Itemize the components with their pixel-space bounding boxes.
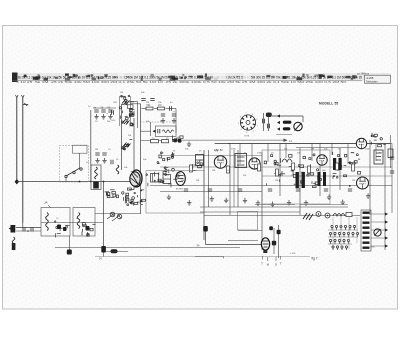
bandfilter 1 coil a	[46, 213, 49, 231]
capacitor row c2	[208, 189, 212, 191]
capacitor C9	[170, 106, 172, 110]
resistor under dial line b	[162, 140, 169, 143]
bandfilter trimmer dark c	[86, 226, 90, 231]
electrolytic C52a	[333, 158, 336, 170]
parts list left dark block	[12, 73, 18, 83]
antenna lead A1	[16, 97, 18, 182]
cluster V2 right	[193, 160, 203, 170]
svg-text:2M: 2M	[196, 180, 199, 182]
svg-text:T: T	[280, 262, 282, 266]
parts list underline	[12, 80, 362, 82]
bottom faint bus	[95, 256, 310, 258]
main row top bus	[228, 143, 390, 145]
wave switch contacts	[66, 168, 80, 176]
vertical 385	[384, 144, 386, 251]
long vertical 208	[208, 150, 210, 207]
pickup coil 1	[283, 121, 292, 124]
bandfilter 1 trimmer	[55, 221, 70, 237]
wire y230	[238, 230, 262, 232]
electrolytic C50b	[302, 172, 305, 188]
svg-text:9: 9	[256, 119, 257, 121]
resistor R4	[158, 107, 165, 110]
main row faint bus a	[160, 155, 262, 157]
capacitor mid tube	[132, 111, 134, 115]
oscillator coil can	[131, 170, 142, 187]
switch diagonal strokes	[107, 213, 120, 221]
ground g12	[366, 193, 370, 198]
switch row C	[329, 239, 331, 244]
antenna lead join	[22, 223, 24, 228]
ground g4	[224, 198, 228, 203]
capacitor grid a	[141, 99, 145, 101]
eye cathode stub	[263, 250, 267, 253]
capacitor C6 group	[108, 110, 112, 112]
ground under dial	[187, 142, 191, 147]
wire V line into box	[150, 122, 152, 136]
AF coupling box	[156, 126, 177, 137]
electrolytic C50a	[296, 172, 299, 188]
node input	[27, 230, 29, 232]
magic eye tube EM	[261, 238, 269, 250]
parts list stamp box	[365, 75, 391, 83]
svg-text:8: 8	[252, 114, 253, 116]
cluster AF stage	[298, 154, 321, 188]
parts list band background	[12, 73, 390, 81]
mixer box parts a	[151, 174, 159, 183]
antenna lead A2	[22, 97, 24, 223]
capacitor C12 group	[172, 114, 176, 116]
motor symbol right	[374, 229, 381, 236]
svg-text:1M: 1M	[352, 180, 355, 182]
tube V1 envelope	[119, 96, 121, 126]
AVC bus wire	[17, 181, 140, 183]
mixer drop blob	[101, 246, 106, 253]
pickup coil 2	[283, 127, 291, 130]
input coil vertical	[12, 237, 15, 250]
ground g6	[256, 200, 260, 205]
input arrow	[9, 227, 12, 230]
bandfilter box 1	[41, 208, 70, 237]
arrow into box	[153, 130, 156, 133]
switch row lines	[328, 229, 358, 231]
switch rotor B	[325, 213, 330, 218]
wire input pair b	[16, 230, 41, 232]
wire switch bus	[95, 213, 140, 215]
switch contact cluster	[105, 190, 119, 198]
node antenna junction	[15, 179, 19, 184]
antenna tip 2	[21, 95, 24, 97]
long vertical 204	[203, 150, 205, 240]
tube V1 mid section	[121, 116, 134, 126]
capacitor C14 group	[95, 153, 99, 155]
ground g3	[210, 196, 214, 201]
vertical 262	[261, 152, 263, 250]
speaker coil humps	[333, 214, 345, 217]
ground g5	[243, 198, 247, 203]
svg-text:1M: 1M	[243, 175, 246, 177]
switch rotor A	[316, 212, 321, 217]
box near eye	[238, 212, 258, 231]
ground g10	[327, 195, 331, 200]
coil L2 winding	[93, 182, 99, 189]
svg-text:6: 6	[240, 117, 241, 119]
dial pointer hatch	[303, 213, 313, 220]
bottom wire blob b	[111, 249, 118, 253]
svg-text:1M: 1M	[128, 135, 131, 137]
bandfilter trimmer dark a	[57, 225, 61, 230]
svg-text:1M: 1M	[379, 153, 382, 155]
wire mid link	[141, 130, 151, 132]
wire tube drop	[137, 102, 139, 129]
wire y240	[228, 240, 258, 242]
ground g2	[187, 200, 191, 205]
vertical 234	[233, 150, 235, 207]
coil L2 can	[91, 165, 101, 190]
bottom wire 252	[106, 251, 128, 253]
ground g1	[167, 195, 171, 200]
phono bottom wire	[276, 134, 292, 136]
svg-text:m m: m m	[245, 135, 250, 138]
capacitor left mid	[112, 110, 114, 114]
eye right components	[272, 241, 276, 246]
tube V2 ECH mixer	[176, 172, 186, 186]
phono top wire	[272, 115, 303, 117]
wire bottom of RF block	[141, 140, 163, 142]
wire switch feed	[79, 153, 81, 168]
bottom wire 247	[55, 247, 240, 249]
cluster output stage	[333, 152, 361, 187]
component on eye feed	[203, 226, 208, 232]
terminal strip outline	[361, 210, 371, 251]
svg-text:5: 5	[238, 123, 239, 125]
component under tube	[128, 105, 134, 109]
terminal strip	[363, 212, 370, 214]
ground g8	[287, 200, 291, 205]
svg-text:e 306: e 306	[290, 253, 296, 255]
osc cluster bottom2	[127, 197, 146, 206]
capacitor row c4	[268, 189, 272, 191]
coil L3 group	[116, 165, 119, 174]
wire input pair a	[16, 227, 41, 229]
resistor R3	[146, 107, 153, 110]
bandfilter 2 parts	[82, 223, 96, 237]
capacitor row c7	[348, 189, 352, 191]
phono lamp	[266, 113, 272, 118]
right top cluster	[371, 133, 386, 147]
bandfilter box 2	[73, 208, 95, 237]
tuning frame dashed	[60, 146, 89, 183]
svg-text:ca 268mm: ca 268mm	[357, 72, 369, 76]
svg-text:T: T	[261, 262, 263, 266]
switch row D	[332, 246, 334, 250]
wire RF vertical 4	[140, 104, 142, 214]
ground g11	[341, 200, 345, 205]
connector arrows	[385, 212, 388, 215]
phono caps	[263, 119, 265, 123]
IF transformer BF2	[235, 154, 247, 168]
svg-text:1M: 1M	[212, 170, 215, 172]
wire tube anode a	[130, 101, 138, 103]
capacitor row c5	[296, 189, 300, 191]
chassis bus y207	[200, 206, 348, 208]
main row second bus	[296, 147, 356, 149]
vertical 300	[299, 148, 301, 215]
cluster mid components	[146, 172, 181, 188]
vertical 370	[369, 140, 371, 215]
svg-text:1M: 1M	[158, 104, 161, 107]
wire eye feed	[205, 231, 207, 245]
vertical 280	[279, 144, 281, 197]
bandfilter 2 coil	[77, 213, 80, 229]
electrolytic C51a	[318, 172, 321, 186]
ground g9	[304, 200, 308, 205]
shield box output	[262, 150, 330, 204]
capacitor row c1	[184, 189, 188, 191]
svg-text:MODELL 55: MODELL 55	[319, 102, 338, 106]
tube V1 upper section	[121, 95, 134, 104]
chassis outline	[300, 204, 348, 206]
drop wires from top bus	[239, 144, 241, 165]
svg-text:1: 1	[257, 125, 258, 127]
speaker row wire	[204, 215, 360, 217]
wire RF vertical 2	[121, 104, 123, 170]
dial pulley 1	[173, 138, 177, 142]
capacitor row c6	[324, 189, 328, 191]
dial cord line	[181, 139, 287, 141]
phono circuit verticals	[263, 113, 265, 131]
capacitor C10	[158, 129, 160, 133]
antenna tip 1	[15, 95, 18, 97]
tube socket underside view	[240, 115, 255, 130]
resistor under dial line a	[151, 140, 159, 143]
tube V1 lower section	[121, 140, 132, 150]
wire right corner	[175, 109, 177, 134]
switch rotor 2	[117, 214, 122, 219]
svg-text:fig 7: fig 7	[312, 257, 318, 261]
svg-text:2: 2	[253, 131, 254, 133]
vertical 230	[215, 143, 231, 145]
capacitor input b	[31, 227, 33, 231]
svg-text:2M: 2M	[95, 149, 98, 151]
wire RF vertical 3	[133, 118, 135, 190]
svg-text:ECH81: ECH81	[176, 189, 184, 191]
svg-text:2M: 2M	[275, 180, 278, 182]
electrolytic C51b	[323, 172, 326, 186]
tube V7 rectifier	[357, 177, 369, 189]
tube V5 EABC	[317, 155, 327, 165]
right column resistor	[388, 149, 393, 158]
wire RF vertical 1	[90, 110, 92, 182]
phono arrows	[277, 114, 280, 117]
right column vertical	[390, 135, 392, 168]
svg-text:4: 4	[240, 129, 241, 131]
vertical 340	[339, 148, 341, 190]
chassis outline left	[255, 204, 295, 206]
right edge components	[390, 157, 394, 159]
vertical 238	[237, 150, 239, 207]
main row faint bus c	[262, 175, 392, 177]
svg-text:D: D	[275, 263, 277, 267]
bottom wire blob a	[67, 250, 72, 255]
main row faint bus b	[160, 166, 392, 168]
right edge vertical	[215, 143, 392, 145]
main row lower bus	[160, 191, 262, 193]
switch column wires	[333, 217, 357, 249]
tube V4 EF	[249, 158, 260, 169]
dial pulley 2	[178, 139, 182, 143]
dashed link line	[140, 121, 176, 123]
wave switch box	[73, 145, 88, 153]
svg-text:2M: 2M	[181, 180, 184, 182]
wire osc link	[103, 182, 105, 247]
IF transformer BF1	[196, 155, 204, 166]
switch rotor 1	[110, 212, 115, 217]
bandfilter trimmer dark b	[63, 227, 67, 231]
tube V6 EL output	[356, 138, 366, 148]
electrolytic C52b	[339, 158, 342, 170]
oscillator gang ellipse	[130, 172, 140, 186]
switch row B	[329, 232, 331, 237]
cluster V2 surround	[157, 152, 175, 173]
tube V3 EBF	[214, 156, 226, 168]
capacitor row c3	[238, 189, 242, 191]
wire eye horizontal	[206, 244, 265, 246]
shield box mixer	[146, 171, 204, 214]
switch row A	[331, 225, 333, 230]
coil hump 1	[282, 159, 292, 162]
cluster under box	[173, 135, 184, 141]
wire grid bus	[93, 107, 116, 109]
capacitor input a	[23, 227, 25, 231]
capacitor C5 group	[101, 110, 105, 112]
capacitor C4 group	[94, 110, 98, 112]
svg-text:u 1904: u 1904	[368, 247, 375, 249]
antenna tap	[23, 103, 29, 106]
svg-text:M: M	[267, 263, 269, 267]
ground g7	[270, 202, 274, 207]
osc cluster bottom	[122, 188, 145, 204]
chassis bus y212	[200, 211, 300, 213]
svg-text:JA: JA	[44, 201, 48, 205]
hanging resistors main row	[190, 165, 193, 172]
cluster detector	[264, 155, 297, 186]
parts list smudges	[127, 76, 129, 77]
bandfilter bus	[41, 222, 104, 224]
resistor R5 squiggle	[163, 130, 174, 133]
pickup motor symbol	[294, 122, 302, 130]
wire tube anode b	[130, 103, 141, 105]
parts list gaps	[213, 73, 226, 80]
speaker small rects	[346, 213, 352, 217]
main row bottom bus	[150, 185, 392, 187]
svg-text:7: 7	[245, 113, 246, 115]
capacitor grid b	[150, 99, 154, 101]
svg-text:2M: 2M	[146, 102, 149, 104]
chassis corner line	[195, 257, 224, 259]
output transformer	[374, 150, 383, 164]
input transformer	[11, 225, 16, 233]
mixer box parts b	[163, 175, 171, 184]
wire grid row	[142, 108, 147, 110]
svg-text:Telefunken: Telefunken	[366, 80, 378, 83]
tube V1 extra marks	[119, 107, 134, 119]
svg-text:2M: 2M	[120, 92, 123, 94]
vertical 320	[319, 144, 321, 197]
dial cord right arrow	[284, 138, 288, 142]
capacitor C11 group	[161, 114, 165, 116]
